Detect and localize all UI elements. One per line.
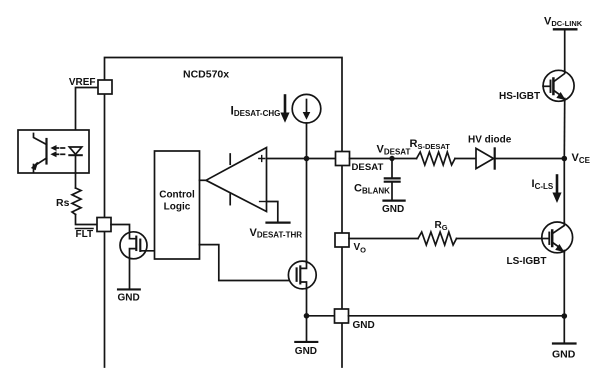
wire diode to V_CE xyxy=(495,158,565,160)
wire LS-IGBT emitter to emitter junction xyxy=(563,252,565,316)
svg-text:DESAT: DESAT xyxy=(352,162,384,173)
wire current source to DESAT line xyxy=(306,123,308,159)
svg-text:VCE: VCE xyxy=(572,152,591,165)
annotation arrow I_C-LS xyxy=(553,176,561,202)
pin FLT xyxy=(97,218,111,232)
svg-text:GND: GND xyxy=(353,320,375,331)
wire Q2 source to GND junction xyxy=(306,289,308,316)
node DESAT internal junction xyxy=(304,156,310,162)
transistor HS-IGBT xyxy=(543,70,574,101)
diode HV (DESAT blocking) xyxy=(476,148,495,168)
svg-text:FLT: FLT xyxy=(76,229,94,240)
pin VREF xyxy=(98,80,112,94)
svg-text:VDC-LINK: VDC-LINK xyxy=(544,15,583,28)
node V_CE xyxy=(562,156,568,162)
pin V_O xyxy=(335,233,349,247)
current source I_DESAT-CHG xyxy=(292,94,321,123)
wire V_CE to LS-IGBT collector xyxy=(563,159,565,225)
svg-text:VDESAT-THR: VDESAT-THR xyxy=(250,227,303,240)
mosfet Q2 (DESAT discharge) xyxy=(288,261,316,289)
wire V_DC-LINK to HS-IGBT collector xyxy=(564,29,566,71)
wire HS-IGBT emitter to V_CE xyxy=(563,101,565,159)
wire FLT pin to Q1 drain xyxy=(111,225,130,233)
mosfet Q1 (FLT pull-down) xyxy=(120,232,155,259)
svg-text:HV diode: HV diode xyxy=(468,135,512,146)
wire resistor to diode xyxy=(455,158,476,160)
node internal GND junction xyxy=(304,313,310,319)
svg-text:HS-IGBT: HS-IGBT xyxy=(499,91,540,102)
ground under Q2 xyxy=(295,316,318,357)
svg-text:IDESAT-CHG: IDESAT-CHG xyxy=(231,104,281,119)
svg-text:GND: GND xyxy=(295,346,317,357)
svg-text:IC-LS: IC-LS xyxy=(532,178,554,191)
wire LED cathode to resistor Rs xyxy=(75,173,77,188)
capacitor C_BLANK xyxy=(385,159,400,200)
svg-text:GND: GND xyxy=(118,293,140,304)
node V_DESAT xyxy=(389,156,394,161)
optocoupler box xyxy=(18,130,89,173)
wire Rs to FLT pin xyxy=(76,215,98,225)
control logic block U2 xyxy=(155,151,200,259)
wire GND junction to GND pin xyxy=(307,315,335,317)
resistor Rs xyxy=(72,188,81,215)
wire control logic to Q2 gate xyxy=(200,245,297,281)
optocoupler phototransistor xyxy=(32,134,47,173)
svg-text:VO: VO xyxy=(354,242,367,255)
svg-text:RS-DESAT: RS-DESAT xyxy=(410,138,451,151)
wire comparator + input to DESAT pin xyxy=(267,158,336,160)
pin GND xyxy=(335,309,349,323)
label FLT (active low, overline) xyxy=(76,229,94,240)
ground under C_BLANK xyxy=(382,201,405,215)
reference V_DESAT-THR on inverting input xyxy=(267,202,290,223)
svg-text:GND: GND xyxy=(552,348,576,360)
wire VREF to optocoupler LED anode xyxy=(76,88,99,148)
wire DESAT line down to Q2 drain xyxy=(306,159,308,263)
svg-text:Control: Control xyxy=(159,190,195,201)
wire GND pin to emitter junction xyxy=(349,315,565,317)
ground bottom right xyxy=(552,316,576,360)
ground under Q1 xyxy=(118,289,140,303)
wire Q1 source down xyxy=(129,259,131,290)
wire V_O pin to R_G xyxy=(349,238,418,240)
svg-text:CBLANK: CBLANK xyxy=(354,183,390,196)
wire DESAT pin to R_S-DESAT xyxy=(350,158,417,160)
optocoupler light arrows xyxy=(52,146,65,157)
svg-text:NCD570x: NCD570x xyxy=(183,69,229,81)
svg-text:RG: RG xyxy=(435,220,448,232)
IC NCD570x boundary xyxy=(105,58,343,368)
svg-text:Logic: Logic xyxy=(164,202,191,213)
resistor R_S-DESAT xyxy=(417,152,456,165)
svg-text:Rs: Rs xyxy=(56,197,70,209)
svg-text:VREF: VREF xyxy=(69,77,96,88)
svg-text:LS-IGBT: LS-IGBT xyxy=(507,256,547,267)
svg-text:GND: GND xyxy=(382,204,404,215)
annotation arrow I_DESAT-CHG xyxy=(281,96,289,122)
optocoupler LED xyxy=(69,147,82,173)
terminal V_DC-LINK xyxy=(544,15,583,29)
wire control logic to comparator output xyxy=(200,179,207,181)
node LS emitter junction xyxy=(562,313,568,319)
pin DESAT xyxy=(336,152,350,166)
svg-text:VDESAT: VDESAT xyxy=(377,144,411,157)
wire R_G to LS-IGBT gate xyxy=(457,238,542,240)
comparator U1 xyxy=(206,148,267,212)
transistor LS-IGBT xyxy=(542,222,573,253)
resistor R_G xyxy=(418,232,457,245)
